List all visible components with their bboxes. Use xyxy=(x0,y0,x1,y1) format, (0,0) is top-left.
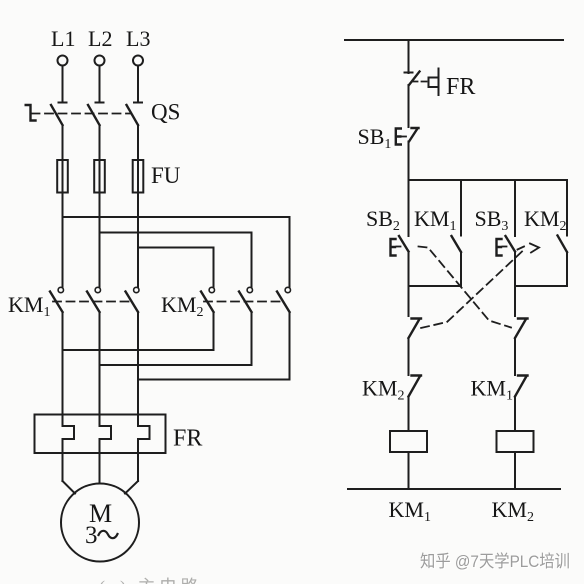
wire join right pair xyxy=(515,285,567,287)
thermal relay FR box xyxy=(35,415,166,454)
contactor KM1 pole 2 xyxy=(87,287,101,312)
wire L3 to QS xyxy=(137,66,139,103)
pushbutton NC left (SB3 linked) xyxy=(409,319,422,339)
wire col3 to NC xyxy=(514,286,516,316)
wire to coil KM2 xyxy=(514,397,516,432)
wire drop col4 xyxy=(566,180,568,236)
wire join left pair xyxy=(409,285,462,287)
contactor KM1 linkage dashed xyxy=(53,301,131,303)
wire to coil KM1 xyxy=(408,397,410,432)
FR heater element 1 xyxy=(63,426,75,481)
wire bus to FR contact xyxy=(408,40,410,73)
wire SB1 to junction xyxy=(408,142,410,181)
contact KM1 aux NO xyxy=(452,236,462,252)
wire motor lead left xyxy=(63,481,76,494)
switch QS pole 2 xyxy=(88,103,104,126)
wire KM2 pole3 return to phase3 xyxy=(138,312,290,380)
node L1 xyxy=(51,26,75,66)
wire top bus control xyxy=(345,39,563,41)
svg-text:知乎 @7天学PLC培训: 知乎 @7天学PLC培训 xyxy=(420,552,570,571)
wire coil KM2 to bottom bus xyxy=(514,452,516,489)
fuse FU2 xyxy=(94,160,105,193)
switch QS linkage dashed xyxy=(32,113,132,115)
wire drop col1 xyxy=(408,180,410,236)
FR heater element 3 xyxy=(138,426,150,481)
watermark zhihu xyxy=(420,552,571,572)
wire phase1 FU to KM1 pole1 xyxy=(62,193,64,288)
wire coil KM1 to bottom bus xyxy=(408,452,410,489)
wire col1 to NC xyxy=(408,286,410,316)
wire KM1 pole1 down to FR xyxy=(62,312,64,426)
contactor KM2 linkage dashed xyxy=(204,301,282,303)
wire right NC to KM1 interlock xyxy=(514,338,516,375)
svg-text:QS: QS xyxy=(151,100,180,125)
wire motor lead right xyxy=(125,481,138,494)
svg-text:FR: FR xyxy=(173,426,202,452)
fuse FU1 xyxy=(57,160,68,193)
pushbutton NC right (SB2 linked) xyxy=(515,319,528,339)
pushbutton SB3 NO xyxy=(497,236,516,256)
contact KM2 NC interlock xyxy=(409,376,422,397)
svg-text:FU: FU xyxy=(151,163,181,188)
wire branch L2 to KM2 pole2 xyxy=(100,233,252,288)
wire branch L1 to KM2 pole3 xyxy=(63,217,290,287)
wire FR to SB1 xyxy=(408,85,410,127)
wire KM2 pole1 return to phase1 xyxy=(63,312,214,350)
wire drop col2 xyxy=(460,180,462,236)
coil KM1 xyxy=(390,431,427,452)
switch QS pole 3 xyxy=(127,103,143,126)
wire QS to FU phase2 xyxy=(99,125,101,160)
switch QS pole 1 xyxy=(51,103,67,126)
switch QS handle xyxy=(26,105,36,121)
contactor KM1 pole 1 xyxy=(50,287,64,312)
wire phase3 FU to KM1 pole3 xyxy=(137,193,139,288)
contactor KM2 pole 3 xyxy=(277,287,290,312)
wire L1 to QS xyxy=(62,66,64,103)
contact KM2 aux NO xyxy=(558,236,568,253)
contactor KM2 pole 1 xyxy=(201,287,215,312)
contactor KM1 pole 3 xyxy=(126,287,140,312)
wire drop col3 xyxy=(514,180,516,236)
wire KM1 aux down xyxy=(460,252,462,286)
linkage dashed SB3 to left NC xyxy=(421,244,539,329)
fuse FU3 xyxy=(133,160,144,193)
wire SB3 down xyxy=(514,252,516,287)
wire branch L3 to KM2 pole1 xyxy=(138,248,214,288)
wire bottom bus xyxy=(348,488,560,490)
svg-text:3: 3 xyxy=(85,522,98,549)
wire left NC to KM2 interlock xyxy=(408,338,410,375)
wire KM1 pole2 down to FR xyxy=(99,312,101,426)
label 3~ xyxy=(85,522,118,549)
FR NC contact control xyxy=(405,72,420,86)
wire L2 to QS xyxy=(99,66,101,103)
motor M circle xyxy=(61,484,139,562)
linkage dashed SB2 to right NC xyxy=(419,247,512,328)
contact KM1 NC interlock xyxy=(515,376,528,397)
node L2 xyxy=(88,26,112,66)
pushbutton SB2 NO xyxy=(391,236,409,256)
FR trip device xyxy=(429,69,439,96)
FR heater element 2 xyxy=(100,426,112,484)
wire junction rail xyxy=(409,179,568,181)
svg-text:FR: FR xyxy=(446,74,475,100)
FR trip linkage dashed xyxy=(413,81,428,83)
wire QS to FU phase1 xyxy=(62,125,64,160)
node L3 xyxy=(126,26,150,66)
contactor KM2 pole 2 xyxy=(239,287,253,312)
wire SB2 down xyxy=(408,252,410,287)
pushbutton SB1 NC xyxy=(396,128,419,145)
wire KM1 pole3 down to FR xyxy=(137,312,139,426)
svg-text:L3: L3 xyxy=(126,26,150,51)
wire KM2 aux down xyxy=(566,252,568,286)
wire QS to FU phase3 xyxy=(137,125,139,160)
svg-text:L2: L2 xyxy=(88,26,112,51)
svg-text:L1: L1 xyxy=(51,26,75,51)
wire phase2 FU to KM1 pole2 xyxy=(99,193,101,288)
svg-text:(a) 主电路: (a) 主电路 xyxy=(99,577,202,584)
coil KM2 xyxy=(497,431,534,452)
wire KM2 pole2 return to phase2 xyxy=(100,312,252,365)
